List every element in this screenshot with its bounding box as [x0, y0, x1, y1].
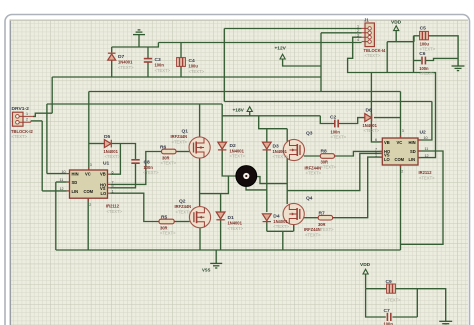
- svg-text:VB: VB: [100, 172, 106, 177]
- ground right C5: [452, 66, 465, 71]
- capacitor C9 body polarized: [387, 284, 396, 293]
- svg-text:R5: R5: [161, 214, 168, 220]
- wire vertical x=222.2 bus104 to D2: [221, 104, 223, 142]
- wire motor-left branch down: [200, 176, 229, 194]
- svg-text:<TEXT>: <TEXT>: [385, 298, 401, 303]
- svg-text:R7: R7: [319, 211, 326, 217]
- label C7: [384, 308, 394, 325]
- svg-text:+12V: +12V: [275, 46, 287, 52]
- svg-text:<TEXT>: <TEXT>: [161, 161, 177, 166]
- svg-text:C9: C9: [386, 279, 393, 285]
- svg-text:<TEXT>: <TEXT>: [273, 154, 289, 159]
- wire U2 VC vertical x=400.5: [400, 92, 402, 138]
- wire conn pin1 row y=28.5: [224, 28, 361, 30]
- chip U1 body: [67, 167, 110, 201]
- wire C4 top lead: [180, 43, 182, 58]
- diode D1 vertical: [216, 212, 225, 220]
- resistor R7 body: [318, 215, 332, 220]
- label TBLOCK-I4: [364, 48, 387, 58]
- svg-text:VDD: VDD: [360, 262, 371, 268]
- wire C9 loop left and bottom: [366, 289, 386, 317]
- wire D4 Q4 bottom row: [267, 230, 294, 232]
- wire Q1 source to Q2 drain: [199, 158, 201, 207]
- wire vertical x=321 pin2 down: [320, 33, 322, 92]
- svg-text:<TEXT>: <TEXT>: [155, 68, 171, 73]
- label U2: [419, 130, 436, 181]
- diode D7: [108, 53, 116, 60]
- wire C6 right lead: [426, 58, 458, 60]
- svg-text:SD: SD: [410, 149, 416, 154]
- label DRV1-2: [11, 106, 34, 139]
- wire conn pin3 path: [348, 37, 436, 157]
- wire vertical x=88.8 to U1 VC: [88, 92, 90, 171]
- wire U1 VB row to D5 node: [110, 144, 120, 175]
- svg-text:3: 3: [402, 129, 404, 133]
- label Q1: [171, 129, 189, 145]
- svg-text:LO: LO: [101, 191, 108, 196]
- wire R6 left feed from U1 HO: [110, 152, 161, 185]
- capacitor C7 plates: [387, 313, 390, 321]
- svg-text:4: 4: [357, 38, 359, 42]
- wire C8 bottom to U1 VS: [110, 164, 135, 188]
- pin numbers J1: [357, 25, 359, 42]
- transistor Q4 mirrored: [283, 203, 304, 224]
- U2 pin numbers: [375, 129, 429, 173]
- label Q3: [305, 131, 322, 176]
- capacitor C2 plates: [335, 120, 338, 128]
- svg-text:C5: C5: [420, 26, 427, 32]
- svg-text:<TEXT>: <TEXT>: [105, 154, 121, 159]
- svg-text:3: 3: [357, 33, 359, 37]
- label D1: [228, 215, 244, 231]
- diode D4 vertical: [262, 214, 271, 222]
- svg-text:1: 1: [26, 112, 28, 116]
- svg-text:<TEXT>: <TEXT>: [107, 209, 123, 214]
- wire U2 HIN row: [418, 102, 432, 141]
- wire +18V rail y=115.8: [222, 115, 320, 117]
- wire D5 cathode row: [112, 144, 136, 160]
- svg-text:1: 1: [375, 153, 377, 157]
- svg-text:12: 12: [425, 154, 429, 158]
- svg-text:VC: VC: [397, 140, 403, 145]
- wire R8 to U2 HO: [335, 151, 383, 156]
- wire U1 SD row tied down: [56, 181, 67, 183]
- label C3: [155, 57, 171, 73]
- pin numbers DRV1-2: [26, 112, 28, 122]
- svg-text:IR2112: IR2112: [419, 170, 433, 175]
- svg-text:D5: D5: [104, 134, 111, 140]
- svg-text:<TEXT>: <TEXT>: [118, 65, 134, 70]
- svg-text:LIN: LIN: [72, 189, 79, 194]
- svg-text:<TEXT>: <TEXT>: [143, 170, 159, 175]
- motor M1: [236, 166, 257, 187]
- wire Q3 gate row: [304, 155, 321, 157]
- svg-text:<TEXT>: <TEXT>: [365, 53, 381, 58]
- wire C5 right lead to gnd: [428, 36, 459, 66]
- wire U2 SD tie row: [401, 151, 444, 244]
- label C8: [143, 160, 159, 176]
- svg-text:<TEXT>: <TEXT>: [331, 135, 347, 140]
- sheet top edge line: [10, 19, 469, 21]
- wire C5 left lead: [414, 35, 420, 37]
- wire C3 top lead: [147, 47, 149, 58]
- wire to bottom-right gnd: [417, 289, 445, 321]
- wire C3 bottom lead: [147, 63, 149, 78]
- svg-text:2: 2: [401, 169, 403, 173]
- svg-text:<TEXT>: <TEXT>: [189, 69, 205, 74]
- label R8: [321, 148, 337, 169]
- svg-text:5: 5: [112, 184, 114, 188]
- ground VSS bottom: [210, 263, 222, 268]
- svg-text:<TEXT>: <TEXT>: [228, 226, 244, 231]
- sheet left edge line: [9, 20, 11, 325]
- wire bus y=91.5 VCC rail: [89, 91, 401, 93]
- svg-text:<TEXT>: <TEXT>: [12, 134, 28, 139]
- wire top bus y=42.5 to conn pin4: [158, 42, 361, 44]
- resistor R5 body: [159, 219, 174, 224]
- wire top gnd bus y=47: [112, 43, 159, 48]
- label D5: [104, 134, 121, 159]
- svg-text:1: 1: [112, 189, 114, 193]
- diode D2 vertical: [218, 142, 227, 150]
- wire bus y=101.5: [224, 101, 432, 103]
- svg-text:D6: D6: [366, 108, 373, 114]
- wire U1 LIN row: [42, 190, 67, 192]
- wire D7 top lead: [111, 47, 113, 53]
- svg-text:C2: C2: [330, 114, 337, 120]
- svg-text:100n: 100n: [384, 322, 394, 325]
- wire C4 bottom lead: [180, 67, 182, 78]
- svg-text:<TEXT>: <TEXT>: [230, 154, 246, 159]
- label D7: [118, 54, 134, 70]
- wire motor bottom lead: [246, 184, 267, 190]
- resistor R8 body: [320, 154, 334, 159]
- svg-text:COM: COM: [395, 157, 405, 162]
- wire U1 COM down: [87, 198, 89, 250]
- connector J1 TBLOCK-I4: [362, 23, 375, 47]
- ground top: [133, 30, 145, 47]
- svg-text:+18V: +18V: [233, 108, 245, 114]
- wire motor right lead: [256, 177, 288, 184]
- wire C7 right segment: [393, 316, 418, 318]
- svg-text:U1: U1: [103, 161, 110, 167]
- wire R7 to U2 LO: [333, 157, 383, 218]
- svg-text:<TEXT>: <TEXT>: [176, 209, 192, 214]
- wire VDD2 stem: [365, 274, 367, 289]
- svg-text:C7: C7: [384, 308, 391, 314]
- U1 pin numbers: [60, 163, 114, 207]
- wire C6 left lead: [414, 60, 422, 62]
- wire D3 bottom to D4 top: [266, 150, 268, 212]
- diode D5 horizontal: [104, 140, 111, 148]
- capacitor C3 plates: [144, 59, 152, 62]
- svg-text:C6: C6: [419, 51, 426, 57]
- label D6: [363, 108, 380, 134]
- svg-text:LIN: LIN: [409, 157, 416, 162]
- wire vertical x=282.8 to bus250: [282, 231, 284, 250]
- wire D5 anode row y=143.5: [89, 143, 104, 145]
- svg-text:Q4: Q4: [306, 196, 313, 202]
- svg-text:HIN: HIN: [409, 140, 416, 145]
- power arrow VDD top: [394, 26, 399, 31]
- svg-text:11: 11: [425, 147, 429, 151]
- wire VDD top stem and branches: [387, 31, 414, 73]
- wire +12V feed y=66: [283, 59, 321, 66]
- wire D4 bottom lead: [266, 222, 268, 231]
- svg-text:R6: R6: [160, 144, 167, 150]
- wire Q1 gate row: [176, 151, 189, 153]
- wire conn pin2 row y=32.8: [321, 32, 362, 34]
- label C4: [189, 58, 205, 74]
- wire Q1 drain top: [199, 104, 201, 137]
- svg-text:IR2112: IR2112: [106, 203, 120, 208]
- svg-text:<TEXT>: <TEXT>: [419, 71, 435, 76]
- U1 pin stubs: [67, 167, 110, 201]
- svg-text:U2: U2: [420, 130, 427, 136]
- wire D2 bottom to motor-left row: [222, 150, 236, 176]
- wire R5 left feed from U1 LO: [110, 193, 159, 221]
- label C2: [330, 114, 347, 139]
- wire rail to Q3 drain: [267, 128, 287, 130]
- svg-text:12: 12: [60, 187, 64, 191]
- svg-text:VS: VS: [100, 186, 106, 191]
- wire U2 VS sense row: [287, 153, 382, 190]
- wire vertical x=413.5 VDD/bootstrap: [413, 36, 415, 73]
- wire U1 HIN row: [47, 173, 67, 175]
- wire D1 bottom lead: [220, 220, 222, 250]
- svg-text:<TEXT>: <TEXT>: [172, 139, 188, 144]
- label U1: [103, 161, 123, 214]
- wire D1 top lead: [220, 194, 222, 212]
- svg-text:VDD: VDD: [391, 20, 402, 26]
- wire +18V stem: [249, 111, 251, 116]
- power arrow +12V: [280, 54, 285, 59]
- wire bus y=77: [52, 76, 321, 78]
- capacitor C8 plates: [131, 160, 139, 163]
- svg-text:10: 10: [62, 170, 66, 174]
- svg-text:2: 2: [26, 118, 28, 122]
- wire D6 cathode row: [374, 117, 401, 119]
- label R7: [318, 211, 334, 232]
- svg-text:HIN: HIN: [72, 172, 79, 177]
- wire Q3 source to Q4 drain: [286, 158, 288, 204]
- transistor Q2: [189, 207, 210, 228]
- svg-text:LO: LO: [384, 157, 391, 162]
- label Q2: [175, 199, 192, 215]
- U2 pin stubs: [380, 135, 421, 168]
- svg-text:10: 10: [424, 136, 428, 140]
- wire Q2 source down: [199, 228, 201, 251]
- resistor R6 body: [162, 149, 177, 154]
- wire left vertical x=52.2 to DRV pin1: [51, 77, 53, 113]
- wire D7 bottom lead: [111, 61, 113, 78]
- svg-text:<TEXT>: <TEXT>: [318, 227, 334, 232]
- wire DRV pin1 row: [33, 113, 52, 116]
- connector DRV1-2: [13, 112, 34, 126]
- label R5: [160, 214, 176, 235]
- wire U2 VB bootstrap path: [371, 73, 382, 142]
- wire D3 top to +18V tap: [259, 116, 267, 142]
- wire D6 anode to C2: [339, 118, 365, 124]
- svg-text:3: 3: [90, 163, 92, 167]
- wire vertical x=46.9 bus104 to U1 HIN: [46, 104, 48, 174]
- svg-text:<TEXT>: <TEXT>: [321, 165, 337, 170]
- label C6: [419, 51, 435, 76]
- wire vertical x=224.3 conn pin1: [223, 29, 225, 102]
- wire bus y=104: [47, 103, 222, 105]
- wire bottom bus y=250: [56, 249, 401, 251]
- label D4: [273, 213, 289, 229]
- wire Q4 gate row: [304, 217, 319, 219]
- label R6: [160, 144, 177, 165]
- wire Q4 source down: [293, 224, 295, 231]
- svg-text:VB: VB: [384, 140, 390, 145]
- wire vertical x=42.2 DRV pin2 to LIN: [41, 121, 43, 191]
- svg-text:<TEXT>: <TEXT>: [305, 232, 321, 237]
- svg-text:2: 2: [357, 29, 359, 33]
- svg-text:VC: VC: [85, 172, 91, 177]
- svg-text:2: 2: [89, 203, 91, 207]
- svg-text:<TEXT>: <TEXT>: [160, 231, 176, 236]
- svg-text:<TEXT>: <TEXT>: [419, 175, 435, 180]
- ground bottom right: [439, 321, 452, 325]
- svg-text:Q3: Q3: [306, 131, 313, 137]
- svg-text:<TEXT>: <TEXT>: [364, 128, 380, 133]
- label Q4: [304, 196, 321, 238]
- power arrow VDD bottom: [363, 269, 368, 274]
- svg-text:J1: J1: [364, 18, 369, 23]
- transistor Q1: [189, 137, 210, 158]
- wire DRV pin2 row: [31, 120, 42, 122]
- svg-text:COM: COM: [84, 189, 94, 194]
- svg-text:R8: R8: [321, 148, 328, 154]
- wire Q2 gate row: [174, 221, 190, 223]
- transistor Q3 mirrored: [283, 139, 304, 160]
- capacitor C5 body polarized: [420, 31, 429, 39]
- label C9: [385, 279, 401, 303]
- svg-text:6: 6: [375, 138, 377, 142]
- power arrow +18V: [247, 107, 252, 112]
- wire C9 right to corner: [396, 289, 418, 317]
- wire U2 COM down: [400, 165, 402, 250]
- wire gnd stem VSS: [215, 250, 217, 263]
- diode D6 horizontal: [365, 114, 372, 122]
- chip U2 body: [380, 135, 421, 168]
- wire C9 loop top: [366, 288, 387, 290]
- U2 pin names: [384, 140, 416, 162]
- label D2: [230, 143, 246, 159]
- svg-text:1: 1: [357, 25, 359, 29]
- capacitor C4 body polarized: [177, 58, 186, 67]
- U1 pin names: [72, 172, 108, 197]
- svg-text:<TEXT>: <TEXT>: [420, 47, 436, 52]
- capacitor C6 plates: [422, 57, 425, 65]
- svg-text:11: 11: [60, 178, 64, 182]
- svg-text:<TEXT>: <TEXT>: [273, 224, 289, 229]
- wire Q3 drain top: [286, 129, 288, 142]
- wire C2 left lead: [320, 116, 334, 124]
- svg-text:SD: SD: [72, 180, 78, 185]
- label D3: [273, 143, 289, 159]
- diode D3 vertical: [262, 142, 271, 150]
- svg-text:6: 6: [112, 170, 114, 174]
- svg-text:VSS: VSS: [202, 268, 211, 273]
- svg-text:<TEXT>: <TEXT>: [306, 171, 322, 176]
- wire vertical x=55.8 SD to bus250: [55, 182, 57, 250]
- label C5: [420, 26, 436, 52]
